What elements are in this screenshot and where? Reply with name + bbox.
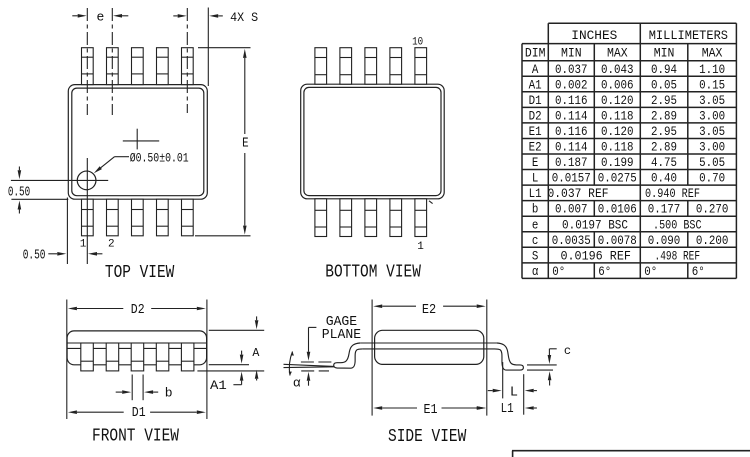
seating plane dashed line [301, 370, 329, 372]
svg-text:.500 BSC: .500 BSC [653, 217, 702, 232]
svg-text:0.50: 0.50 [8, 184, 30, 200]
svg-text:0.270: 0.270 [696, 202, 729, 217]
svg-text:0.50: 0.50 [23, 247, 46, 263]
front view extension line right [206, 300, 208, 420]
svg-text:MILLIMETERS: MILLIMETERS [649, 29, 728, 43]
side view package body [375, 330, 484, 364]
svg-text:L: L [532, 171, 539, 186]
svg-text:0.006: 0.006 [601, 77, 634, 92]
top view top row pins [81, 48, 193, 85]
svg-text:e: e [532, 217, 539, 232]
side view extension line left [371, 300, 373, 416]
svg-text:E2: E2 [529, 140, 542, 155]
side view extension line right [486, 300, 488, 416]
svg-text:4.75: 4.75 [651, 155, 677, 170]
svg-text:MAX: MAX [702, 47, 723, 61]
svg-text:0.118: 0.118 [601, 140, 634, 155]
gage plane dashed line [301, 361, 333, 363]
dimension D1 [68, 406, 206, 421]
svg-text:MIN: MIN [654, 47, 675, 61]
dimension A [197, 316, 264, 380]
side view right lead (gull wing) [495, 343, 524, 370]
alpha angle arc and label [289, 352, 301, 391]
caption TOP VIEW [105, 263, 175, 283]
table row S [532, 248, 700, 263]
front view leads [81, 343, 194, 371]
svg-text:0.037: 0.037 [555, 62, 588, 77]
table row D1 [529, 93, 725, 108]
dimension L [488, 386, 537, 401]
bottom view pin number 10 [412, 37, 423, 49]
svg-text:A: A [252, 346, 260, 360]
table row E2 [529, 140, 725, 155]
svg-text:2.95: 2.95 [651, 124, 677, 139]
svg-text:D1: D1 [529, 93, 542, 108]
svg-text:SIDE VIEW: SIDE VIEW [388, 427, 466, 447]
svg-text:2: 2 [108, 239, 115, 251]
svg-text:D2: D2 [529, 108, 542, 123]
pin 1 indicator circle [77, 171, 96, 190]
dimension b (lead width) [116, 375, 173, 401]
svg-text:.498 REF: .498 REF [655, 248, 701, 263]
svg-text:0°: 0° [552, 264, 565, 279]
svg-text:0.0157: 0.0157 [552, 171, 591, 186]
svg-text:3.05: 3.05 [699, 124, 725, 139]
svg-text:E1: E1 [529, 124, 542, 139]
dimension 0.50 horizontal (edge to pin1) [23, 198, 103, 265]
svg-text:FRONT VIEW: FRONT VIEW [92, 427, 179, 447]
front view extension line left [66, 300, 68, 420]
svg-text:0.114: 0.114 [555, 140, 588, 155]
svg-text:b: b [532, 202, 539, 217]
svg-text:3.00: 3.00 [699, 108, 725, 123]
svg-text:A: A [532, 62, 539, 77]
table row A [532, 62, 725, 77]
caption BOTTOM VIEW [325, 263, 421, 283]
svg-text:E: E [532, 155, 539, 170]
svg-text:0.037 REF: 0.037 REF [548, 186, 609, 201]
svg-text:1: 1 [80, 239, 87, 251]
svg-text:0.0275: 0.0275 [598, 171, 637, 186]
top view pin number 2 [108, 239, 115, 251]
pin 1 centerline [86, 8, 88, 264]
svg-text:5.05: 5.05 [699, 155, 725, 170]
title block border fragment [512, 451, 750, 457]
svg-text:2.95: 2.95 [651, 93, 677, 108]
svg-text:0.187: 0.187 [555, 155, 588, 170]
svg-text:BOTTOM VIEW: BOTTOM VIEW [325, 263, 421, 283]
table row E1 [529, 124, 725, 139]
svg-text:0.090: 0.090 [648, 233, 681, 248]
svg-text:0.15: 0.15 [699, 77, 725, 92]
table header DIM MIN MAX MIN MAX [525, 47, 723, 61]
dimension E2 [373, 303, 486, 318]
svg-text:3.00: 3.00 [699, 140, 725, 155]
svg-text:E2: E2 [422, 303, 436, 318]
svg-text:0.118: 0.118 [601, 108, 634, 123]
svg-text:DIM: DIM [525, 47, 546, 61]
dimension c reference lines [527, 365, 557, 370]
svg-text:0.116: 0.116 [555, 124, 588, 139]
bottom view pin number 1 [417, 241, 424, 253]
caption FRONT VIEW [92, 427, 179, 447]
svg-text:e: e [97, 9, 105, 24]
table row c [532, 233, 728, 248]
svg-text:0.116: 0.116 [555, 93, 588, 108]
svg-text:INCHES: INCHES [571, 29, 617, 43]
svg-text:6°: 6° [598, 264, 611, 279]
svg-text:0.043: 0.043 [601, 62, 634, 77]
svg-text:MAX: MAX [607, 47, 628, 61]
bottom view bottom row pins [315, 199, 427, 237]
gage plane pointer bracket [307, 327, 317, 385]
svg-text:α: α [293, 376, 301, 391]
svg-text:0.0196 REF: 0.0196 REF [560, 248, 631, 263]
svg-text:0.94: 0.94 [651, 62, 677, 77]
svg-text:b: b [165, 386, 173, 401]
svg-text:D2: D2 [131, 303, 145, 318]
svg-text:PLANE: PLANE [322, 328, 361, 343]
table row E [532, 155, 725, 170]
top view pin number 1 [80, 239, 87, 251]
svg-text:Ø0.50±0.01: Ø0.50±0.01 [130, 152, 189, 166]
dimension 4X S [173, 8, 258, 87]
svg-text:2.89: 2.89 [651, 108, 677, 123]
svg-text:E: E [242, 137, 249, 152]
top view package body outline [68, 85, 207, 200]
side view lead shoulder band [360, 343, 497, 349]
svg-text:TOP VIEW: TOP VIEW [105, 263, 175, 283]
svg-text:0.177: 0.177 [648, 202, 681, 217]
svg-text:0.200: 0.200 [696, 233, 729, 248]
dimension E1 and L1 line [373, 402, 537, 418]
svg-text:A1: A1 [210, 378, 227, 393]
bottom view top row pins [315, 48, 427, 84]
bottom view package body outline [301, 84, 445, 199]
svg-text:10: 10 [412, 37, 423, 49]
svg-text:0.120: 0.120 [601, 93, 634, 108]
svg-text:4X S: 4X S [230, 10, 258, 25]
package center mark [123, 129, 159, 150]
dimension c [548, 344, 572, 386]
svg-text:0.05: 0.05 [651, 77, 677, 92]
svg-text:0.0106: 0.0106 [598, 202, 637, 217]
label GAGE PLANE [322, 315, 361, 343]
svg-text:c: c [564, 344, 571, 358]
svg-text:0.002: 0.002 [555, 77, 588, 92]
svg-text:6°: 6° [692, 264, 705, 279]
svg-text:0.0197 BSC: 0.0197 BSC [562, 217, 628, 232]
table row α [532, 264, 705, 279]
svg-text:0.114: 0.114 [555, 108, 588, 123]
svg-text:0.199: 0.199 [601, 155, 634, 170]
svg-text:S: S [532, 248, 539, 263]
svg-text:1.10: 1.10 [699, 62, 725, 77]
svg-text:1: 1 [417, 241, 424, 253]
svg-text:0.0035: 0.0035 [552, 233, 591, 248]
dimension D2 [68, 303, 206, 318]
svg-text:L1: L1 [529, 186, 542, 201]
table header INCHES / MILLIMETERS [571, 29, 728, 43]
top view bottom row pins [81, 199, 193, 236]
svg-text:c: c [532, 233, 539, 248]
svg-text:α: α [532, 264, 539, 279]
pin 2 centerline [111, 8, 113, 115]
svg-text:E1: E1 [424, 403, 438, 418]
dimension L extension lines [503, 362, 524, 415]
table row D2 [529, 108, 725, 123]
svg-text:L1: L1 [501, 402, 514, 417]
table row L1 [529, 186, 700, 201]
dimension table grid [522, 23, 736, 278]
svg-text:A1: A1 [529, 77, 542, 92]
svg-text:0°: 0° [644, 264, 657, 279]
annotation diameter 0.50 +/-0.01 with leader [94, 152, 189, 174]
bottom view pin 1 chamfer mark [429, 201, 433, 204]
dimension e (pin pitch) [72, 9, 128, 24]
svg-text:0.0078: 0.0078 [598, 233, 637, 248]
alpha angle wedge line lower [284, 366, 335, 369]
table row b [532, 202, 728, 217]
svg-text:L: L [510, 386, 518, 401]
pin 5 centerline [186, 8, 188, 113]
svg-text:0.120: 0.120 [601, 124, 634, 139]
svg-text:0.940 REF: 0.940 REF [645, 186, 700, 201]
front view package body [67, 331, 207, 365]
dimension E (overall lead span) [195, 48, 251, 236]
caption SIDE VIEW [388, 427, 466, 447]
svg-text:MIN: MIN [561, 47, 582, 61]
svg-text:0.70: 0.70 [699, 171, 725, 186]
svg-text:0.007: 0.007 [555, 202, 588, 217]
table row A1 [529, 77, 725, 92]
alpha angle wedge line upper [284, 364, 335, 366]
table row e [532, 217, 702, 232]
svg-text:3.05: 3.05 [699, 93, 725, 108]
svg-text:2.89: 2.89 [651, 140, 677, 155]
svg-text:0.40: 0.40 [651, 171, 677, 186]
svg-text:D1: D1 [132, 406, 146, 421]
table row L [532, 171, 725, 186]
dimension A1 [209, 351, 249, 393]
dimension 0.50 vertical (pin1 to edge) [8, 167, 108, 214]
side view left lead (gull wing, tilted) [334, 343, 363, 368]
